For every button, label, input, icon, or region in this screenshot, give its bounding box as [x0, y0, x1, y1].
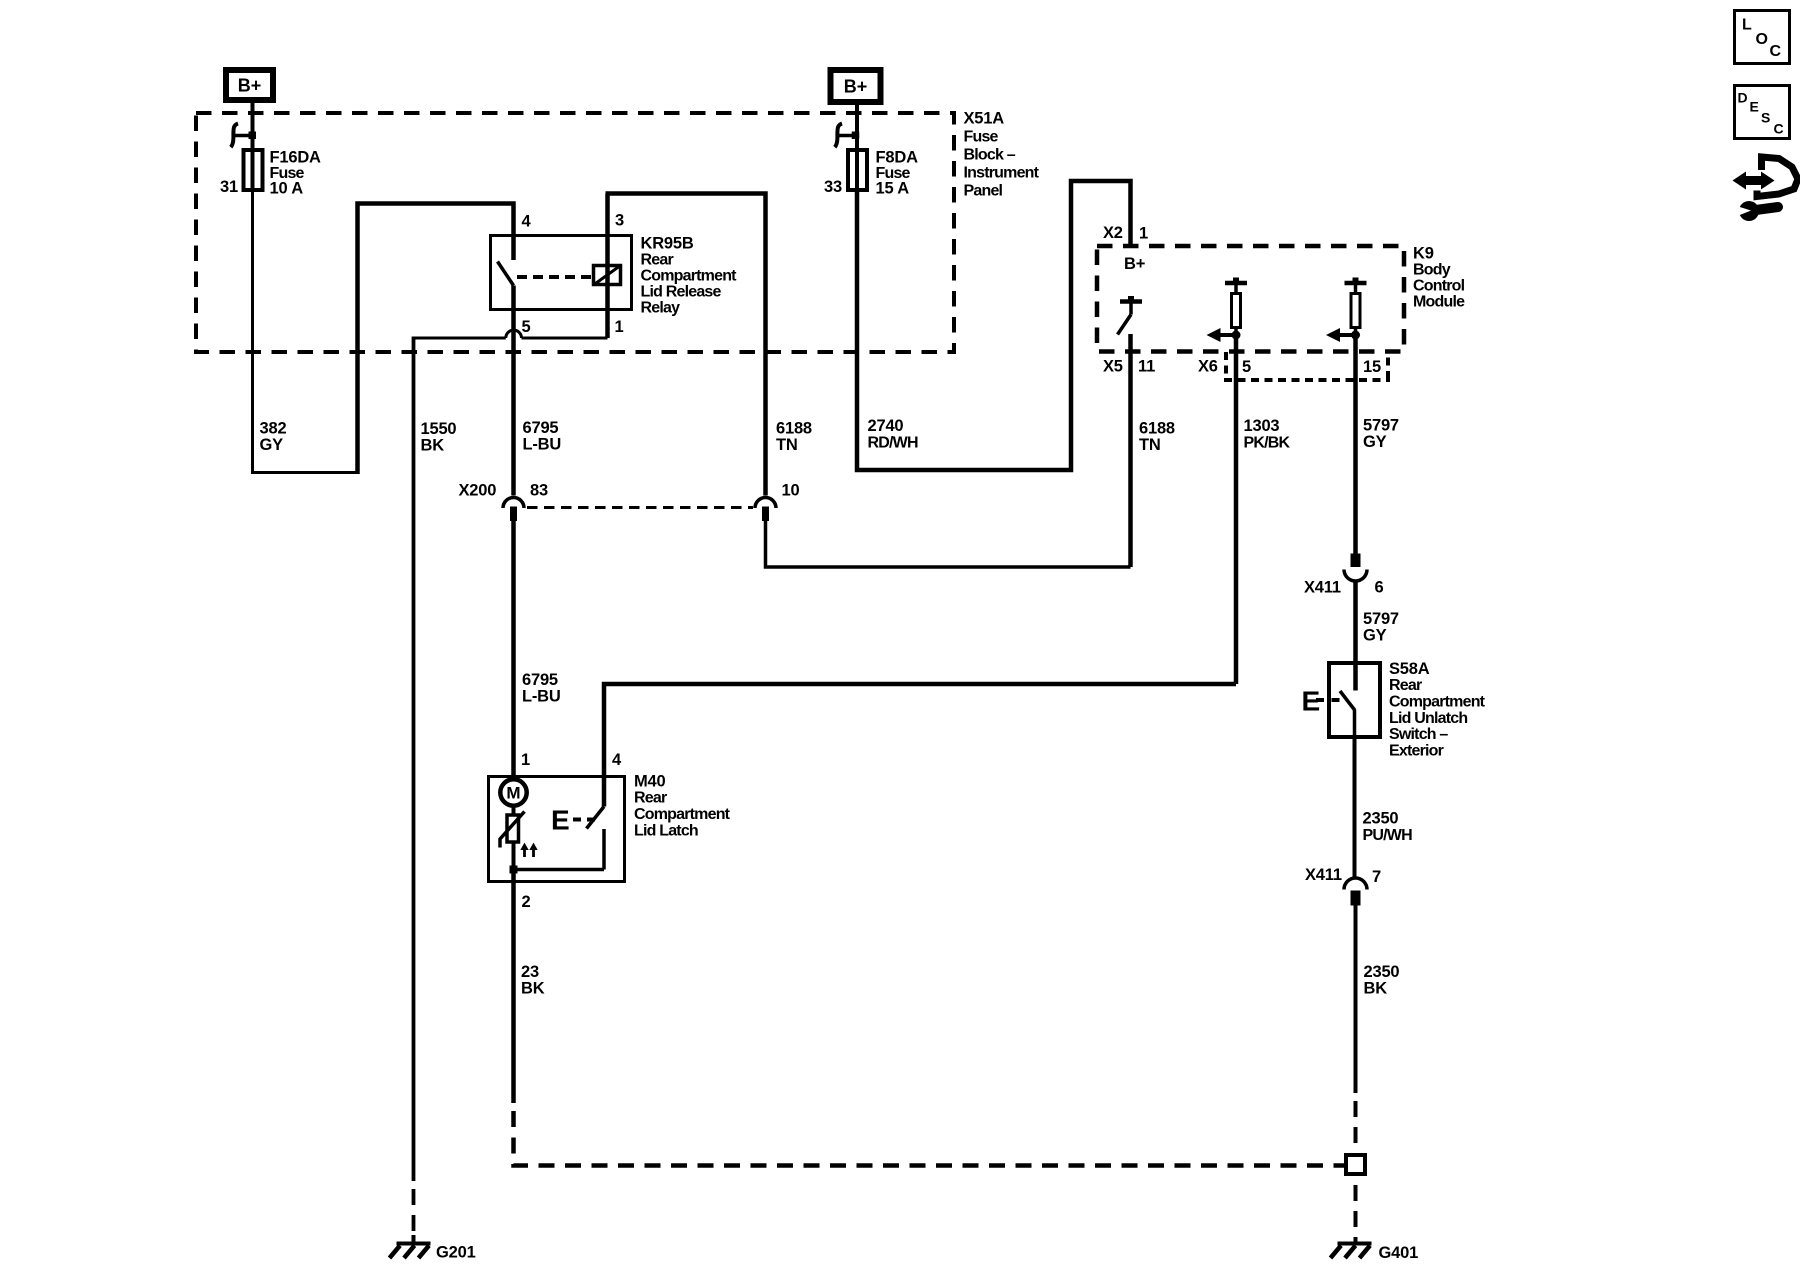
svg-text:6188: 6188	[776, 419, 812, 437]
wire label 6795 L-BU	[523, 419, 562, 454]
fuse F16DA 10 A	[220, 148, 321, 197]
wire 1303 PK/BK to M40 pin 4	[604, 684, 1236, 807]
svg-text:Block –: Block –	[964, 146, 1016, 163]
svg-text:B+: B+	[844, 77, 868, 97]
svg-text:2740: 2740	[868, 417, 904, 435]
svg-text:C: C	[1774, 121, 1784, 137]
wire BCM X5 pin 11 / 6188 TN	[1128, 334, 1133, 567]
DESC legend box	[1735, 86, 1790, 139]
wire label 2350 BK	[1364, 963, 1400, 998]
svg-text:382: 382	[260, 419, 287, 437]
relay coil box	[594, 266, 621, 285]
M40 switch lever	[587, 807, 605, 829]
dashed wire 23 BK branch to G401 splice	[514, 1103, 1345, 1166]
svg-text:F8DA: F8DA	[876, 148, 919, 166]
wire riser to relay pin 4	[358, 204, 514, 475]
svg-text:E: E	[1750, 99, 1759, 115]
connector X200 pin 83	[503, 498, 524, 521]
dashed wire to G401 splice	[1354, 1093, 1358, 1152]
svg-text:Relay: Relay	[641, 299, 681, 316]
wire PTC to junction	[512, 842, 516, 870]
svg-text:Rear: Rear	[634, 790, 667, 807]
wire 2350 BK X411-7 down	[1354, 906, 1358, 1094]
wire B+ to fuse F16DA	[251, 103, 255, 192]
fuse block X51A dashed box	[196, 109, 1040, 352]
svg-text:BK: BK	[421, 436, 445, 454]
svg-text:Lid Release: Lid Release	[641, 283, 722, 300]
fuse F8DA 15 A	[824, 148, 918, 197]
svg-text:L: L	[1742, 17, 1752, 34]
svg-text:L-BU: L-BU	[522, 688, 561, 706]
motor M symbol	[500, 779, 526, 805]
connector X200 dashed tie line	[527, 506, 753, 509]
svg-text:GY: GY	[1363, 627, 1387, 645]
svg-text:1303: 1303	[1244, 417, 1280, 435]
relay actuation dashed link	[517, 275, 591, 279]
BCM X6 connector dashed notch	[1224, 352, 1390, 380]
svg-text:23: 23	[521, 963, 539, 981]
G401 splice box	[1346, 1155, 1365, 1174]
svg-text:M: M	[506, 784, 520, 803]
svg-text:Switch –: Switch –	[1389, 726, 1448, 743]
svg-text:TN: TN	[776, 436, 798, 454]
svg-text:15 A: 15 A	[876, 179, 910, 197]
svg-text:G201: G201	[436, 1244, 476, 1262]
svg-text:S58A: S58A	[1389, 660, 1430, 678]
connector X200 pin 10	[755, 498, 776, 521]
svg-text:X51A: X51A	[964, 109, 1005, 127]
dashed wire 1550 BK to G201	[412, 1189, 416, 1242]
body control module K9 dashed box	[1097, 244, 1465, 351]
svg-text:1: 1	[521, 751, 530, 769]
wire relay pin 5 / 6795 L-BU to X200 pin 83	[511, 286, 516, 496]
motor latch M40 box	[489, 772, 731, 881]
BCM internal driver resistor at X6 pin 15	[1326, 278, 1367, 343]
wire label 382 GY	[260, 419, 287, 454]
svg-text:X2: X2	[1103, 224, 1123, 242]
relay switch lever	[498, 262, 514, 286]
svg-text:X6: X6	[1198, 357, 1218, 375]
svg-text:5797: 5797	[1363, 417, 1399, 435]
svg-text:2: 2	[522, 893, 531, 911]
BCM pin labels X2 1	[1103, 224, 1148, 243]
svg-text:X411: X411	[1305, 866, 1342, 884]
M40 thermistor (PTC)	[500, 806, 525, 848]
S58A switch lever and contact	[1340, 691, 1355, 739]
svg-text:Panel: Panel	[964, 182, 1003, 199]
svg-text:Module: Module	[1413, 293, 1465, 310]
svg-text:11: 11	[1138, 357, 1155, 375]
svg-text:X5: X5	[1103, 357, 1123, 375]
svg-text:GY: GY	[1363, 433, 1387, 451]
svg-text:2350: 2350	[1363, 809, 1399, 827]
ground G401	[1331, 1244, 1419, 1263]
switch S58A box	[1329, 660, 1486, 760]
svg-text:Compartment: Compartment	[1389, 694, 1486, 711]
wire label 5797 GY	[1363, 417, 1399, 452]
svg-text:Lid Unlatch: Lid Unlatch	[1389, 710, 1467, 727]
svg-text:BK: BK	[1364, 980, 1388, 998]
svg-text:6: 6	[1375, 579, 1384, 597]
wire 23 BK M40 pin 2 down	[511, 870, 516, 1104]
svg-text:10: 10	[782, 482, 800, 500]
M40 pin labels	[521, 751, 622, 911]
svg-text:5797: 5797	[1363, 610, 1399, 628]
svg-text:S: S	[1761, 110, 1770, 126]
wire 2350 PU/WH S58A to X411-7	[1353, 739, 1357, 878]
svg-text:6795: 6795	[522, 671, 558, 689]
bus tap symbol at F16DA	[231, 124, 256, 148]
dashed wire splice to G401 ground	[1354, 1177, 1358, 1243]
relay KR95B box	[491, 234, 738, 316]
S58A E actuator	[1302, 686, 1340, 717]
svg-text:X200: X200	[459, 482, 497, 500]
wire label 6188 TN (right)	[1139, 419, 1175, 454]
svg-text:D: D	[1738, 90, 1748, 106]
wire 5797 GY X411-6 to S58A	[1353, 581, 1358, 691]
svg-text:L-BU: L-BU	[523, 436, 562, 454]
svg-text:GY: GY	[260, 436, 284, 454]
svg-text:4: 4	[522, 212, 532, 230]
svg-text:C: C	[1770, 43, 1782, 60]
svg-text:1550: 1550	[421, 420, 457, 438]
power symbol B+ (left battery feed)	[226, 70, 273, 100]
PTC arrows	[520, 843, 537, 857]
svg-text:31: 31	[220, 178, 238, 196]
wire label 5797 GY (lower)	[1363, 610, 1399, 645]
wire label 6795 L-BU (lower)	[522, 671, 561, 706]
svg-text:PK/BK: PK/BK	[1244, 435, 1291, 452]
M40 switch contact to junction	[514, 829, 605, 870]
connector X411 pin 7	[1305, 866, 1381, 906]
svg-text:BK: BK	[521, 979, 545, 997]
svg-text:G401: G401	[1379, 1244, 1419, 1262]
bus tap symbol at F8DA	[835, 124, 859, 148]
svg-text:2350: 2350	[1364, 963, 1400, 981]
svg-text:15: 15	[1363, 358, 1381, 376]
wire relay pin 1 to 1550 BK with crossover hop	[414, 330, 608, 338]
svg-text:K9: K9	[1413, 244, 1434, 262]
svg-text:Body: Body	[1413, 261, 1451, 278]
power symbol B+ (right battery feed)	[831, 70, 881, 102]
BCM pin labels X6 5 15	[1198, 357, 1381, 376]
svg-text:X411: X411	[1304, 579, 1341, 597]
relay coil wire pin 3 to pin 1	[605, 194, 610, 339]
svg-text:4: 4	[612, 751, 622, 769]
wire B+ to fuse F8DA	[855, 105, 859, 192]
svg-text:Instrument: Instrument	[964, 164, 1040, 181]
wire relay pin 3 to X200 pin 10	[606, 194, 766, 496]
svg-text:B+: B+	[1124, 255, 1145, 273]
BCM internal driver resistor at X6 pin 5	[1207, 278, 1248, 343]
svg-text:KR95B: KR95B	[641, 234, 694, 252]
svg-text:RD/WH: RD/WH	[868, 435, 918, 452]
svg-text:O: O	[1756, 31, 1768, 48]
M40 E actuator	[551, 805, 595, 836]
wire 1550 BK vertical	[412, 337, 416, 1182]
wire label 6188 TN (left)	[776, 419, 812, 454]
svg-text:E: E	[551, 805, 570, 836]
svg-text:F16DA: F16DA	[270, 148, 322, 166]
M40 internal junction node	[510, 866, 518, 874]
svg-text:Control: Control	[1413, 277, 1465, 294]
svg-text:Rear: Rear	[641, 251, 674, 268]
wire 2740 RD/WH fuse F8DA to BCM X2 pin 1	[857, 181, 1131, 470]
wire 382 GY fuse F16DA down and right	[253, 192, 360, 473]
wire label 1550 BK	[421, 420, 457, 455]
svg-text:Compartment: Compartment	[641, 267, 738, 284]
relay pin labels	[522, 211, 625, 336]
svg-text:3: 3	[615, 211, 624, 229]
svg-text:83: 83	[530, 482, 548, 500]
svg-text:6188: 6188	[1139, 419, 1175, 437]
svg-text:B+: B+	[238, 76, 262, 96]
wire X200 pin 10 to BCM X5 pin 11	[766, 521, 1131, 567]
svg-text:33: 33	[824, 178, 842, 196]
svg-text:1: 1	[615, 318, 624, 336]
svg-text:Lid Latch: Lid Latch	[634, 822, 698, 839]
svg-text:Exterior: Exterior	[1389, 742, 1444, 759]
connector X200 labels	[459, 482, 800, 500]
LOC legend box	[1735, 11, 1790, 64]
connector X411 pin 6	[1304, 554, 1384, 597]
wire label 23 BK	[521, 963, 545, 998]
wire 6795 L-BU X200 pin 83 to M40 pin 1	[511, 521, 516, 778]
BCM internal switch at X5 11	[1118, 296, 1143, 335]
wire label 2350 PU/WH	[1363, 809, 1413, 844]
ground G201	[390, 1235, 476, 1262]
wire BCM X6 pin 5 / 1303 PK/BK	[1234, 335, 1239, 684]
wire label 2740 RD/WH	[868, 417, 918, 452]
svg-text:Rear: Rear	[1389, 677, 1422, 694]
svg-text:TN: TN	[1139, 436, 1161, 454]
svg-text:PU/WH: PU/WH	[1363, 827, 1413, 844]
svg-text:Compartment: Compartment	[634, 806, 731, 823]
svg-text:1: 1	[1139, 224, 1148, 242]
wire BCM X6 pin 15 / 5797 GY	[1353, 335, 1358, 554]
BCM pin labels X5 11	[1103, 357, 1155, 375]
svg-text:M40: M40	[634, 772, 666, 790]
svg-text:5: 5	[522, 318, 531, 336]
wire label 1303 PK/BK	[1244, 417, 1291, 452]
svg-text:10 A: 10 A	[270, 179, 304, 197]
svg-text:7: 7	[1372, 868, 1381, 886]
svg-text:Fuse: Fuse	[964, 128, 999, 145]
svg-text:5: 5	[1242, 358, 1251, 376]
svg-text:6795: 6795	[523, 419, 559, 437]
schematic navigation icon (double arrow, bent arrow, wrench)	[1733, 157, 1799, 221]
